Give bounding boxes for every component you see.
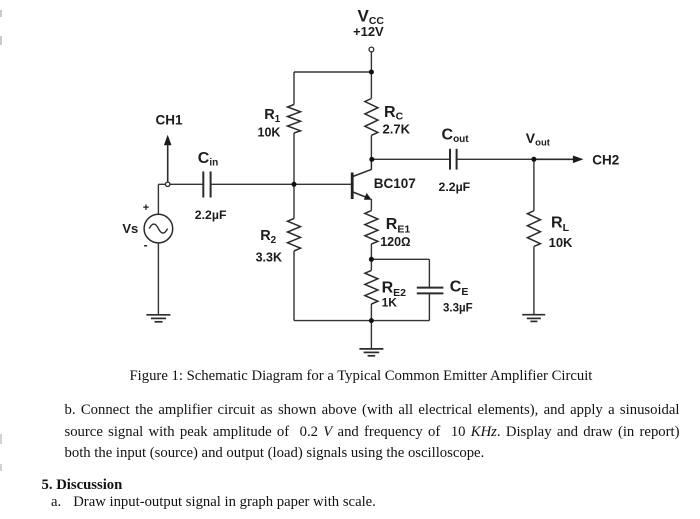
svg-text:RL: RL bbox=[551, 215, 570, 235]
node junction collector bbox=[369, 157, 374, 162]
probe CH1 arrow bbox=[164, 135, 172, 187]
svg-text:RC: RC bbox=[384, 104, 404, 123]
wire R1 top lead bbox=[293, 72, 295, 105]
resistor Rc bbox=[365, 99, 378, 136]
svg-text:2.2µF: 2.2µF bbox=[439, 180, 471, 194]
ground right bbox=[522, 315, 545, 322]
svg-text:RE1: RE1 bbox=[386, 216, 411, 236]
svg-text:Cout: Cout bbox=[442, 127, 470, 146]
svg-text:+: + bbox=[143, 202, 149, 214]
wire base rail left segment bbox=[158, 183, 203, 185]
wire CE bottom lead bbox=[428, 294, 430, 321]
svg-text:CE: CE bbox=[450, 278, 469, 298]
item a bbox=[51, 494, 376, 511]
ground middle bbox=[359, 349, 383, 356]
node junction Vout bbox=[531, 157, 536, 162]
svg-text:10K: 10K bbox=[549, 235, 573, 250]
wire RE1 to node bbox=[370, 244, 372, 259]
wire R2 top lead bbox=[293, 184, 295, 218]
wire R2 bottom lead bbox=[293, 251, 295, 321]
node junction base bbox=[292, 182, 297, 187]
svg-text:10K: 10K bbox=[258, 125, 281, 139]
svg-text:3.3µF: 3.3µF bbox=[443, 303, 473, 315]
wire RL to ground bbox=[533, 246, 535, 314]
resistor RL bbox=[527, 211, 540, 247]
wire Vs to ground bbox=[157, 243, 159, 315]
wire emitter to RE1 bbox=[370, 199, 372, 211]
svg-text:+12V: +12V bbox=[353, 24, 384, 39]
svg-text:-: - bbox=[144, 238, 148, 252]
svg-text:Vs: Vs bbox=[122, 221, 138, 236]
svg-text:CH1: CH1 bbox=[156, 113, 183, 128]
resistor R2 bbox=[288, 219, 301, 252]
probe CH2 arrow bbox=[534, 156, 584, 164]
wire Vout node to RL bbox=[533, 159, 535, 210]
resistor RE1 bbox=[365, 211, 378, 244]
wire bottom node to ground bbox=[370, 321, 372, 349]
source Vs bbox=[144, 214, 173, 243]
svg-text:R1: R1 bbox=[264, 107, 280, 125]
wire CE top lead bbox=[428, 259, 430, 287]
wire RE1 node to CE branch bbox=[371, 258, 429, 260]
wire source branch corner down bbox=[157, 184, 159, 214]
wire bottom rail bbox=[294, 320, 429, 322]
wire top rail bbox=[294, 71, 371, 73]
svg-text:3.3K: 3.3K bbox=[256, 250, 282, 264]
wire collector node to Cout bbox=[371, 158, 449, 160]
heading 5. Discussion bbox=[42, 477, 123, 494]
wire Cin to base node bbox=[211, 183, 353, 185]
wire R1 bottom lead to base node bbox=[293, 133, 295, 184]
capacitor Cin bbox=[203, 172, 210, 198]
svg-text:1K: 1K bbox=[382, 295, 398, 309]
ground left bbox=[146, 315, 170, 322]
node junction top rail bbox=[369, 70, 374, 75]
caption Figure 1 bbox=[130, 368, 593, 385]
svg-text:CH2: CH2 bbox=[592, 152, 619, 167]
wire Cout to Vout node bbox=[457, 158, 534, 160]
transistor Q1 BC107 bbox=[352, 161, 371, 200]
paragraph b bbox=[65, 400, 680, 464]
svg-text:2.7K: 2.7K bbox=[383, 122, 411, 137]
wire Vcc terminal to top rail bbox=[370, 52, 372, 72]
node junction RE1-RE2 bbox=[369, 257, 374, 262]
resistor R1 bbox=[288, 105, 301, 134]
Vcc terminal circle bbox=[369, 47, 374, 52]
svg-text:2.2µF: 2.2µF bbox=[195, 208, 227, 222]
svg-text:BC107: BC107 bbox=[374, 176, 416, 191]
capacitor CE bbox=[417, 288, 444, 294]
wire RE2 top lead bbox=[370, 259, 372, 270]
svg-text:Cin: Cin bbox=[198, 150, 218, 169]
svg-text:R2: R2 bbox=[260, 228, 276, 246]
scan artifact marks on left edge bbox=[0, 10, 2, 17]
wire Rc bottom to collector node bbox=[370, 135, 372, 160]
wire top rail to Rc bbox=[370, 72, 372, 99]
capacitor Cout bbox=[450, 149, 457, 170]
wire RE2 bottom lead bbox=[370, 304, 372, 321]
resistor RE2 bbox=[365, 270, 378, 304]
node junction bottom rail bbox=[369, 318, 374, 323]
svg-text:120Ω: 120Ω bbox=[380, 235, 410, 249]
svg-text:Vout: Vout bbox=[526, 130, 551, 149]
